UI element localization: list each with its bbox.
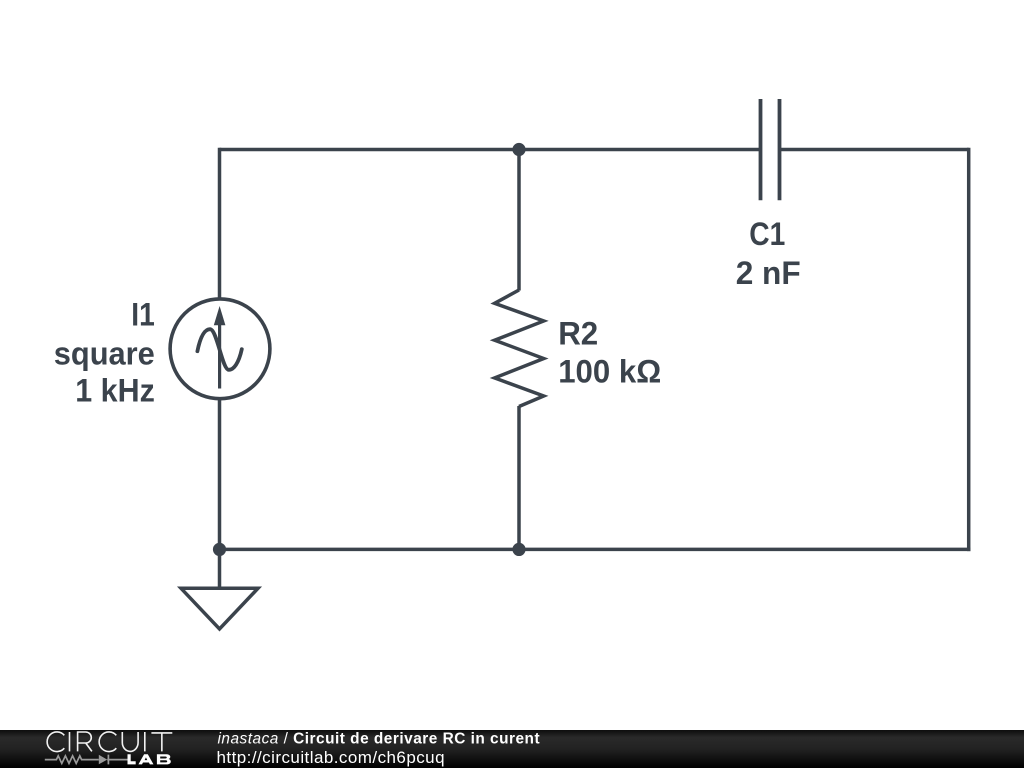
- wire right rail: [967, 148, 971, 551]
- current source I1: [170, 299, 270, 399]
- svg-text:square: square: [54, 336, 155, 372]
- ground symbol: [181, 588, 258, 629]
- junction node at bottom left: [213, 543, 226, 556]
- svg-text:1 kHz: 1 kHz: [75, 372, 155, 408]
- logo diode: [99, 755, 107, 765]
- capacitor C1: [761, 99, 780, 200]
- svg-text:100 kΩ: 100 kΩ: [558, 353, 661, 389]
- svg-text:R2: R2: [558, 316, 598, 352]
- wire bottom rail: [218, 548, 971, 552]
- logo CIRCUIT letter I: [144, 732, 146, 751]
- junction node at bottom middle: [512, 543, 525, 556]
- svg-text:inastaca / Circuit de derivare: inastaca / Circuit de derivare RC in cur…: [218, 731, 541, 748]
- svg-text:http://circuitlab.com/ch6pcuq: http://circuitlab.com/ch6pcuq: [217, 748, 446, 767]
- wire middle vertical upper (top node to R2): [517, 150, 521, 291]
- logo CIRCUIT letter C: [47, 732, 64, 752]
- logo CIRCUIT letter T: [151, 733, 172, 752]
- wire left rail lower (I1 to ground node): [218, 397, 222, 549]
- logo CIRCUIT letter I: [69, 732, 71, 751]
- ground wire stub: [218, 549, 222, 588]
- wire middle vertical lower (R2 to bottom node): [517, 406, 521, 549]
- logo CIRCUIT letter U: [122, 732, 138, 751]
- junction node at top middle: [512, 143, 525, 156]
- footer bar: [0, 730, 1024, 768]
- logo wire with resistor: [45, 756, 99, 764]
- resistor R2: [495, 290, 544, 407]
- wire top-right (C1 to right rail): [780, 148, 969, 152]
- wire top-left (node between I1 and C1): [220, 148, 761, 152]
- svg-text:2 nF: 2 nF: [736, 255, 801, 291]
- logo CIRCUIT letter R: [78, 732, 92, 751]
- logo LAB letter L: [128, 754, 136, 764]
- logo LAB letter B: [157, 754, 171, 764]
- svg-text:I1: I1: [131, 297, 155, 333]
- svg-text:C1: C1: [749, 216, 785, 252]
- logo LAB letter A: [138, 754, 153, 764]
- logo CIRCUIT letter C: [99, 732, 116, 752]
- wire left rail upper (top node to I1): [218, 148, 222, 300]
